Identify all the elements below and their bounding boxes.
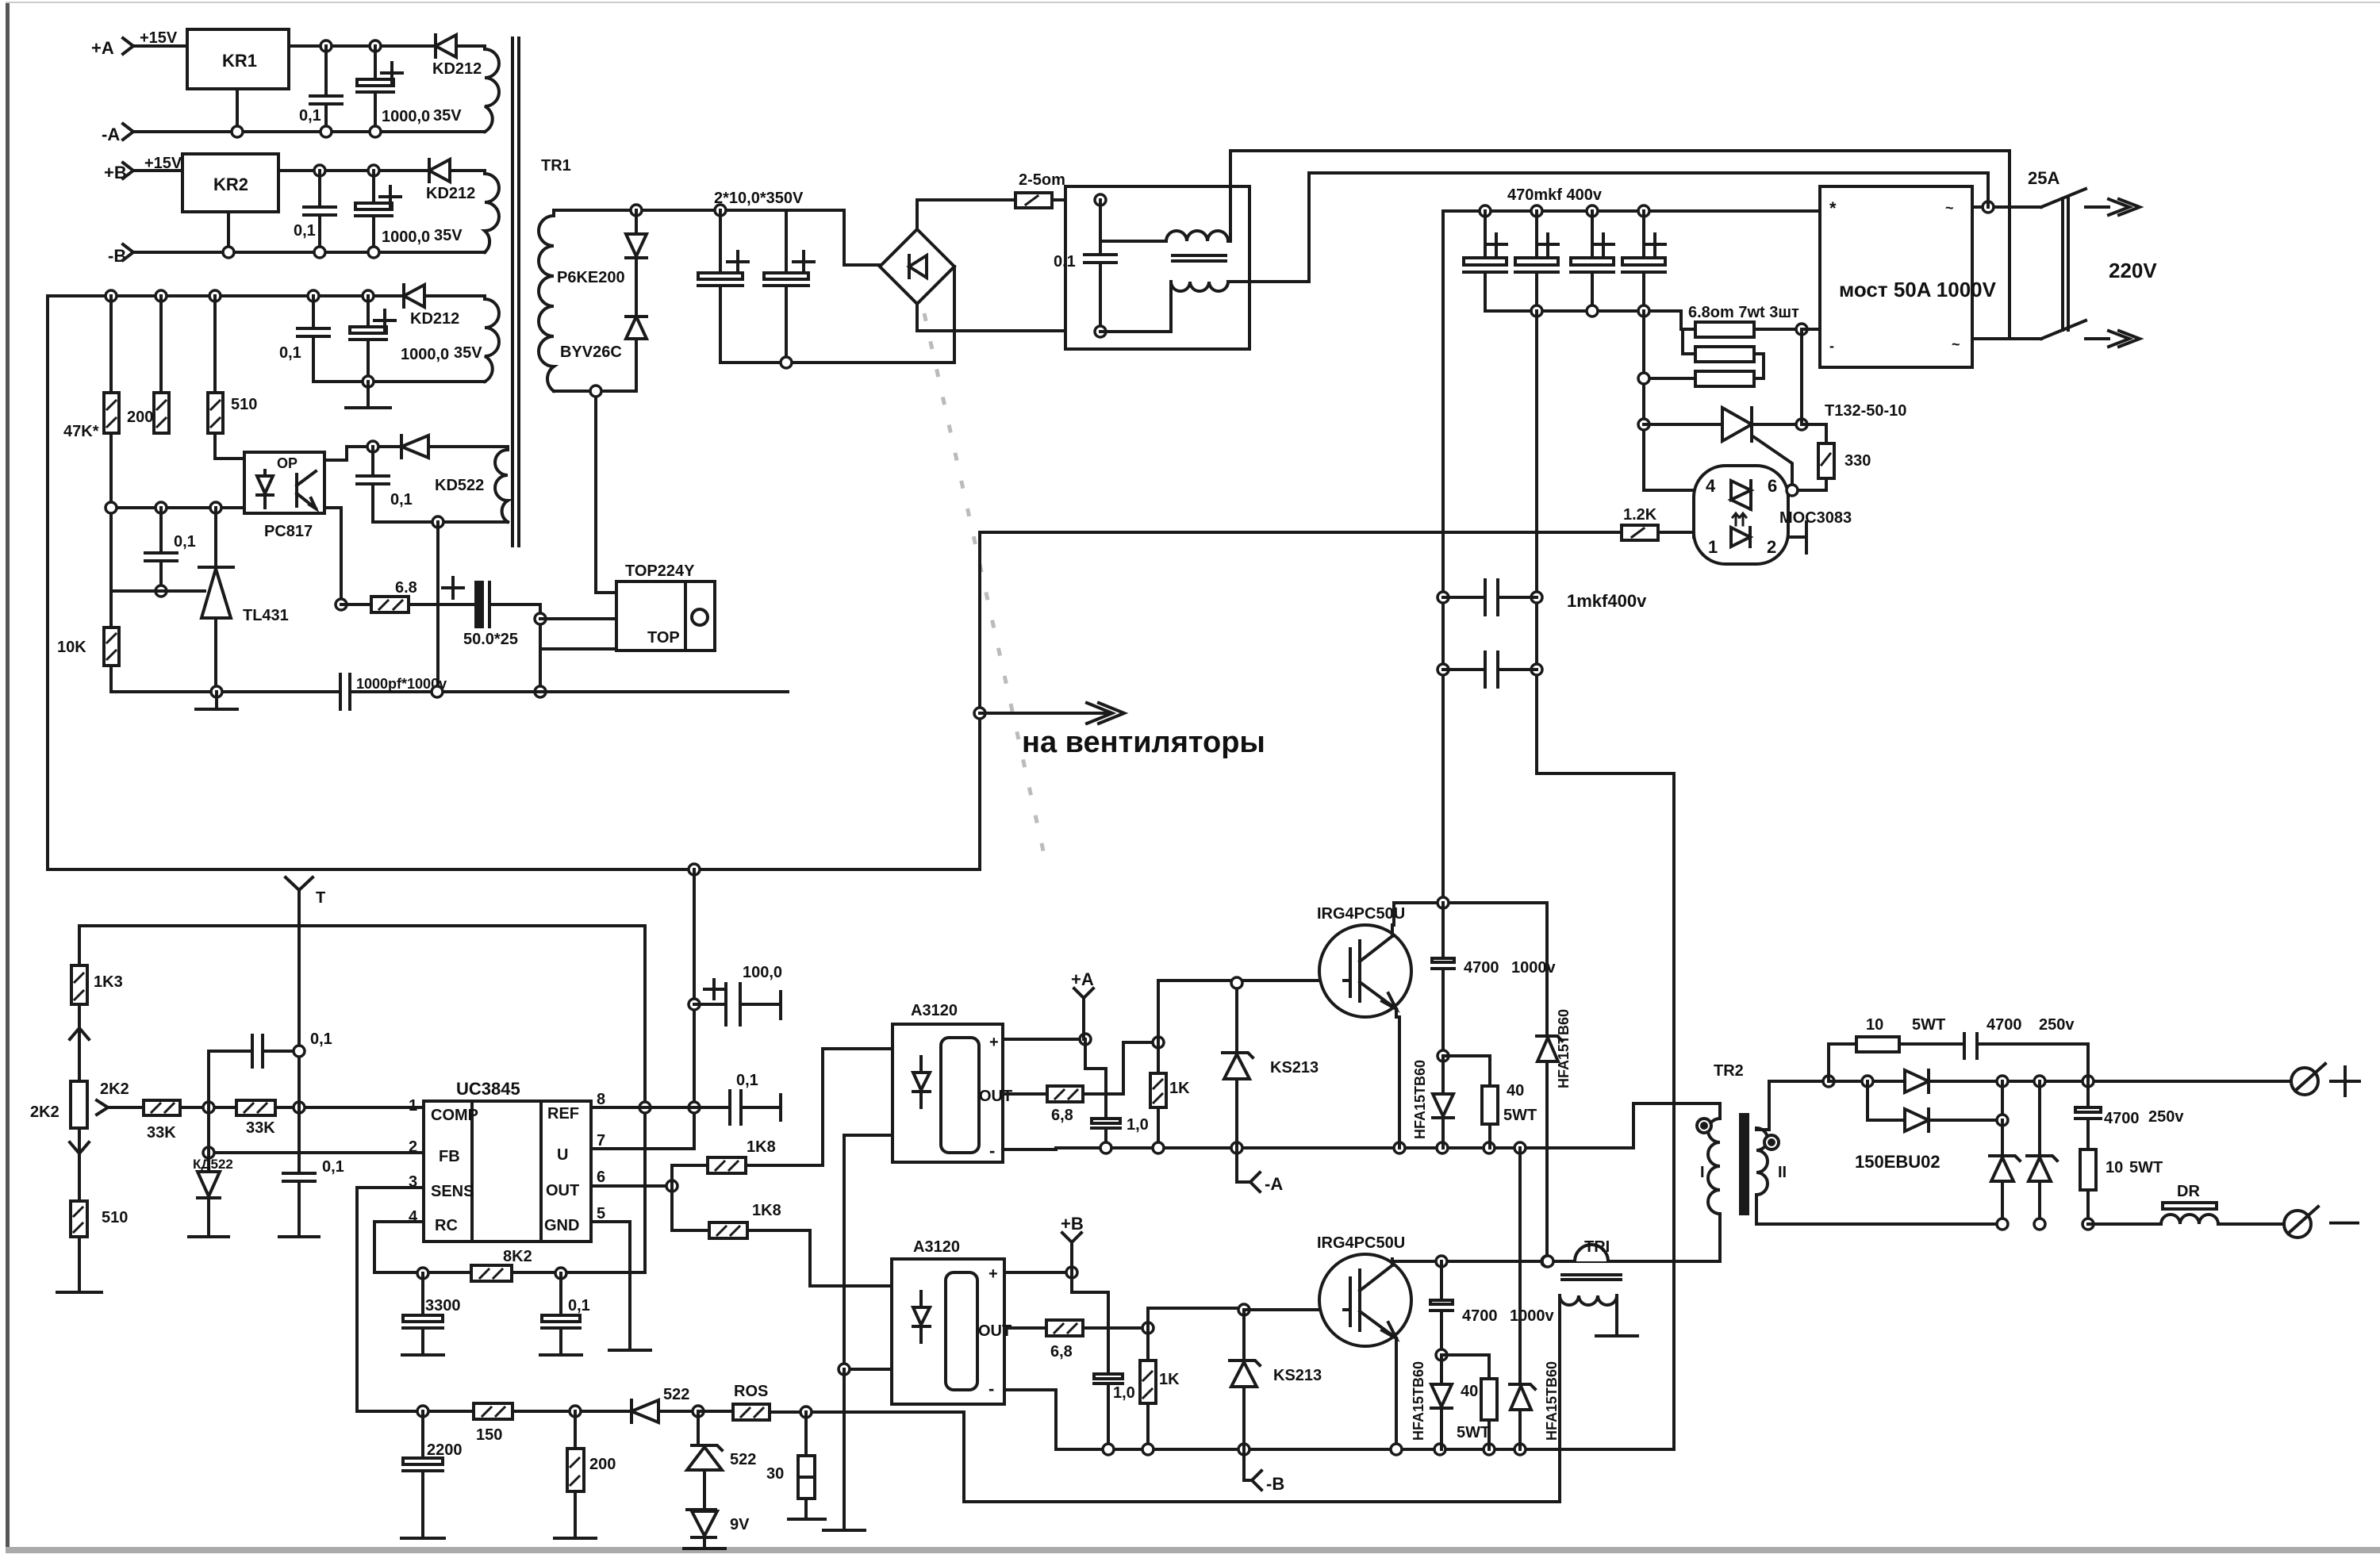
svg-text:HFA15TB60: HFA15TB60 [1556,1009,1572,1088]
svg-text:SENS: SENS [431,1183,474,1200]
wire A3120#2 out pin [1004,1326,1046,1330]
svg-text:КД522: КД522 [193,1157,233,1172]
wire bridge bottom to filter [917,304,1100,331]
diode KD212 (B) [426,159,485,202]
connector +A [91,38,133,58]
IC UC3845 [409,1079,605,1242]
wire KR1 gnd pin [236,89,239,132]
page border top faint [6,2,2380,3]
svg-text:-B: -B [108,246,126,266]
svg-text:0,1: 0,1 [568,1297,590,1314]
winding TR1 aux OP [495,447,508,522]
filter box [1065,186,1249,349]
TR2 phase dot primary [1697,1119,1711,1133]
TRI core bar [1562,1275,1621,1280]
svg-text:25A: 25A [2028,168,2059,188]
wire top rail C [48,294,404,297]
svg-text:1K8: 1K8 [752,1202,781,1219]
connector -A [1237,1148,1283,1194]
connector -A [102,124,133,144]
resistor 2-5om [1015,171,1065,208]
wire GND pin5 [591,1222,630,1350]
svg-text:KD212: KD212 [410,310,459,328]
svg-text:-: - [989,1141,995,1161]
transistor IRG4PC50U #1 [1317,905,1411,1017]
wire 510 to OP pin1 [215,433,244,459]
capacitor 100,0 [694,964,782,1025]
wire filter bottom out [1100,330,1171,333]
diode 150EBU02 #1 [1905,1070,1929,1092]
svg-text:TOP: TOP [647,629,680,647]
svg-text:-A: -A [1265,1174,1283,1194]
svg-text:5WT: 5WT [1503,1107,1537,1124]
zener KS213 #2 [1230,1310,1322,1449]
capacitor 1,0 #1 [1092,1116,1149,1148]
svg-text:510: 510 [231,396,257,413]
T vertical [297,904,301,1173]
resistor 6,8 #1 [1047,1086,1083,1124]
capacitor 470mkf #1 [1464,211,1507,311]
svg-text:KD212: KD212 [432,60,482,78]
svg-text:-: - [988,1379,994,1399]
svg-text:P6KE200: P6KE200 [557,269,625,286]
fans arrow [980,703,1124,723]
resistor 1K #2 [1140,1328,1180,1449]
resistor 6.8om #1 [1681,311,1802,337]
wire to most minus [1802,328,1820,331]
wire REF pin8 [591,1106,730,1109]
wire + line [1829,1080,2292,1083]
capacitor 0,1 T-gnd [279,1158,344,1237]
svg-text:8: 8 [597,1091,605,1108]
resistor 200 [127,296,169,433]
svg-text:5WT: 5WT [1457,1424,1490,1441]
scan crease dashes [924,313,1047,869]
wire SENS row [357,1410,631,1413]
wire bridge right down to caps bottom [953,267,956,363]
svg-text:150EBU02: 150EBU02 [1855,1152,1940,1172]
svg-text:35V: 35V [433,107,462,125]
wire +B to KR2 [133,169,182,172]
svg-text:5WT: 5WT [1912,1016,1945,1034]
svg-text:TL431: TL431 [243,607,289,624]
vertical bus right [1642,311,1645,490]
svg-text:1K8: 1K8 [747,1138,776,1156]
choke winding lower [1171,282,1228,332]
svg-text:6.8: 6.8 [395,579,417,597]
svg-text:A3120: A3120 [913,1238,960,1256]
wire rail C bottom [313,380,485,383]
wire KR1 out [289,44,436,48]
wire bridge top to 2-5om [917,200,1015,229]
resistor 6.8om #2 [1683,329,1764,362]
diode KD212 (C) [404,285,485,328]
svg-text:330: 330 [1844,452,1871,470]
winding TR1 rail B [485,171,499,252]
svg-text:3300: 3300 [425,1297,461,1314]
wire line2 down to switch top [1987,173,1990,207]
wire KR2 out [278,169,429,172]
svg-text:1: 1 [1708,537,1718,557]
diode P6KE200 [626,210,647,317]
connector -B [1244,1449,1284,1494]
svg-text:KR2: KR2 [213,175,248,194]
TR2 secondary bottom wire [1756,1195,2002,1224]
svg-text:I: I [1700,1164,1705,1181]
wire choke upper right up to top line [1228,151,1230,241]
svg-text:FB: FB [439,1148,460,1165]
svg-text:4700: 4700 [1987,1016,2022,1034]
svg-text:4700: 4700 [2104,1110,2140,1127]
optocoupler MOC3083 [1694,466,1852,564]
wire A3120#2 LED return [844,1368,892,1371]
wire to ROS [698,1410,733,1413]
pot arrow bottom [70,1128,89,1201]
wire TOP drain up to TR1 secondary bottom [596,391,616,593]
page border bottom [6,1547,2380,1553]
svg-text:47K*: 47K* [63,423,99,440]
svg-text:0,1: 0,1 [174,533,196,551]
svg-text:0,1: 0,1 [736,1072,758,1089]
wire A3120#1 LED return [844,1135,892,1369]
phototransistor inside PC817 [297,471,316,509]
riser x813 [643,926,647,1272]
wire 2-5om to filter [1052,198,1100,201]
diode HFA15TB60 #3 [1411,1355,1452,1449]
IC мост 50A 1000V [1820,186,1997,367]
svg-text:6: 6 [1768,476,1777,496]
node filter bottom [1095,326,1106,337]
svg-text:RC: RC [435,1217,458,1234]
node filter top [1095,194,1106,205]
svg-text:-: - [1829,338,1834,354]
svg-text:0,1: 0,1 [294,222,316,240]
diode 150EBU02 #2 [1868,1081,2002,1131]
svg-text:PC817: PC817 [264,523,313,540]
ground rail C [346,382,390,408]
resistor 1K #1 [1150,1042,1190,1148]
svg-text:470mkf 400v: 470mkf 400v [1507,186,1603,204]
svg-text:7: 7 [597,1132,605,1149]
svg-text:U: U [557,1146,568,1164]
svg-text:510: 510 [102,1209,128,1226]
capacitor 1mkf400v #1 [1443,580,1647,615]
svg-text:10K: 10K [57,639,86,656]
TR2 secondary top wire [1756,1081,1829,1130]
switch link bar [2063,198,2068,330]
svg-text:40: 40 [1507,1082,1524,1100]
TL431 [199,508,289,692]
svg-text:BYV26C: BYV26C [560,343,622,361]
svg-text:4700: 4700 [1464,959,1499,977]
svg-text:OUT: OUT [978,1322,1011,1340]
switch 25A pole 2 [2041,320,2140,347]
resistor 510 lower [71,1201,128,1292]
svg-text:1K: 1K [1159,1371,1180,1388]
bus +300V vertical [1441,211,1445,903]
wire RC pin4 [374,1222,424,1272]
IGBT2 collector wire [1392,1259,1441,1261]
left bus vertical [46,296,49,869]
svg-text:522: 522 [730,1451,756,1468]
capacitor 470mkf #2 [1515,211,1558,311]
resistor 1K8 #1 [672,1049,892,1186]
wire +A to KR1 [133,44,187,48]
capacitor 1000,0 35V (C) [350,296,482,382]
riser x875 with caps [591,869,694,1149]
snubber 10 5WT top [1829,1016,1964,1081]
capacitor 0,1 (C) [279,296,329,382]
resistor 30 [766,1412,825,1519]
svg-text:30: 30 [766,1465,784,1483]
svg-text:T132-50-10: T132-50-10 [1825,402,1906,420]
wire 8K2 row [423,1271,645,1274]
svg-text:50.0*25: 50.0*25 [463,631,518,648]
svg-text:TR2: TR2 [1714,1062,1744,1080]
capacitor 4700 250v top [1964,1016,2088,1081]
svg-text:UC3845: UC3845 [456,1079,520,1099]
svg-text:9V: 9V [730,1516,750,1533]
bottom control bus wire [113,690,337,693]
node 6.8om to bridge [1796,324,1807,335]
diode КД522 [189,1153,233,1237]
IGBT2 collector line to TRI [1441,1260,1548,1263]
svg-text:6,8: 6,8 [1050,1343,1073,1361]
wire y1167 horizontal [79,924,645,927]
svg-text:GND: GND [544,1217,579,1234]
svg-text:1000,0: 1000,0 [382,108,430,125]
svg-text:2: 2 [1767,537,1776,557]
zener out #2 [2027,1081,2057,1224]
resistor 10 5WT bottom [2080,1149,2163,1224]
capacitor 4700 250v bottom [2075,1081,2184,1149]
resistor 1K3 [71,926,123,1004]
svg-text:5WT: 5WT [2129,1159,2163,1176]
wire A rail to TR2 primary top [1633,1103,1720,1148]
svg-text:TOP224Y: TOP224Y [625,562,695,580]
choke core bars [1173,255,1226,261]
svg-text:IRG4PC50U: IRG4PC50U [1317,905,1405,923]
svg-text:5: 5 [597,1205,605,1222]
node 1mkf top left [1438,592,1449,603]
wire most top-right terminal [1972,205,2041,209]
svg-text:KR1: KR1 [222,51,257,71]
zener 9V [684,1510,750,1549]
TR2 primary winding [1708,1119,1720,1214]
connector +A [1071,969,1094,1039]
bank bottom bus [1485,309,1681,313]
svg-text:522: 522 [663,1386,689,1403]
svg-text:1,0: 1,0 [1113,1384,1135,1402]
connector +B [1061,1214,1084,1272]
capacitor 50.0*25 electrolytic [409,578,540,648]
svg-text:OUT: OUT [979,1088,1012,1105]
wire choke lower right to second line [1228,173,1309,282]
emitter rail A [1003,1148,1633,1149]
svg-text:*: * [1829,198,1837,218]
svg-text:250v: 250v [2039,1016,2075,1034]
wire aux to bottom bus [436,522,440,692]
choke DR [2161,1183,2218,1224]
wire OP pin4 to diode KD522 [324,447,401,460]
wire OP pin2 bottom-left [113,506,244,509]
svg-text:-A: -A [102,125,120,144]
output terminal plus [2291,1064,2359,1096]
resistor 10K [57,591,119,692]
gate wire A to IGBT [1158,981,1344,1042]
svg-text:4700: 4700 [1462,1307,1498,1325]
diode KD212 (A) [432,35,485,78]
wire FB pin2 [209,1151,424,1154]
bank top bus [1443,209,1820,213]
svg-text:0,1: 0,1 [299,107,321,125]
wire line1 down to switch bottom [2008,152,2011,339]
IC KR1 [187,29,289,89]
svg-text:150: 150 [476,1426,502,1444]
ground GND pin5 [609,1349,651,1352]
svg-text:1000v: 1000v [1511,959,1556,977]
svg-text:33K: 33K [147,1124,176,1142]
svg-text:0,1: 0,1 [390,491,413,509]
wire ROS to current sense return [964,1412,1560,1502]
long wire 220V line2 [1309,171,1988,175]
bridge rectifier diamond [880,229,954,304]
IC TOP224Y [616,562,715,651]
TR2 primary bottom to TRI line [1718,1214,1722,1261]
node dots rail A top [321,40,332,52]
wire most bottom-right terminal [1972,337,2041,340]
wire caps top to bridge left [786,210,880,265]
ground TL431 [196,708,237,711]
capacitor 0,1 on REF [730,1072,781,1124]
wire y1096 horizontal [48,868,980,871]
svg-text:+: + [989,1034,999,1051]
svg-text:мост 50A 1000V: мост 50A 1000V [1839,278,1997,301]
resistor 33K #2 [236,1100,424,1137]
wire TR1 secondary bottom [554,390,636,393]
wire -B rail [133,251,485,254]
resistor 150 [474,1403,512,1444]
svg-text:KD522: KD522 [435,477,484,494]
svg-text:HFA15TB60: HFA15TB60 [1412,1060,1428,1139]
capacitor 10,0 350V #2 [764,210,814,363]
diode HFA15TB60 #4 [1510,1148,1560,1449]
resistor 47K* [63,296,119,440]
svg-text:200: 200 [589,1456,616,1473]
svg-text:KS213: KS213 [1273,1367,1322,1384]
switch 25A pole 1 [2041,189,2140,215]
wire to TOP224Y pins [539,604,542,692]
svg-text:REF: REF [547,1105,579,1123]
wire MOC pin1 (1.2K line) [980,531,1622,534]
MOC led symbol [1731,513,1750,547]
svg-text:—: — [2329,1205,2359,1238]
capacitor 0,1 (B) [294,171,336,252]
TRI secondary [1560,1295,1637,1502]
svg-text:1.2K: 1.2K [1623,506,1657,524]
gate node B wiring [1083,1326,1148,1330]
wire KR2 gnd pin [227,212,230,252]
capacitor 0,1 (aux) [357,447,413,522]
winding TR1 rail C [485,296,499,382]
svg-text:2-5om: 2-5om [1019,171,1065,189]
thyristor T132-50-10 [1722,402,1906,490]
svg-text:0,1: 0,1 [322,1158,344,1176]
winding TR1 rail A [485,46,499,132]
resistor ROS [733,1383,964,1420]
svg-text:IRG4PC50U: IRG4PC50U [1317,1234,1405,1252]
node thyristor cathode [1796,419,1807,430]
capacitor 1000,0 35V (B) [355,171,463,252]
TR1 secondary winding [539,210,554,391]
capacitor 0.1 filter [1054,200,1116,332]
svg-text:40: 40 [1461,1383,1478,1400]
svg-text:10: 10 [1866,1016,1883,1034]
bus -300V vertical [1537,311,1674,1449]
IC KR2 [182,154,278,212]
svg-text:1mkf400v: 1mkf400v [1567,591,1647,611]
wire caps bottom to bridge right [720,361,954,364]
svg-text:HFA15TB60: HFA15TB60 [1411,1361,1426,1441]
TR2 secondary winding [1756,1128,1768,1195]
minus rail [1997,1219,2008,1230]
svg-text:T: T [316,889,325,907]
diode 522 [631,1386,698,1422]
emitter rail B [1004,1390,1674,1449]
long wire 220V line1 [1230,149,2010,152]
svg-text:TRI: TRI [1584,1238,1610,1256]
TR2 core [1741,1115,1748,1214]
diode HFA15TB60 #1 [1412,1056,1453,1148]
svg-text:OP: OP [277,455,297,471]
capacitor 1,0 #2 [1094,1374,1135,1449]
connector +B [104,163,133,182]
resistor 510 [208,296,257,433]
diode HFA15TB60 #2 [1537,903,1572,1266]
TR2 phase dot secondary [1764,1135,1779,1149]
wire TR1 secondary top [554,209,786,212]
svg-text:DR: DR [2177,1183,2200,1200]
resistor 6.8om #3 [1644,354,1764,386]
T antenna symbol [286,877,325,907]
capacitor 0,1 under 200 [145,508,196,591]
resistor 8K2 [471,1248,532,1281]
svg-text:A3120: A3120 [911,1002,958,1019]
svg-text:+B: +B [1061,1214,1084,1234]
svg-text:100,0: 100,0 [743,964,782,981]
svg-text:MOC3083: MOC3083 [1779,509,1852,527]
capacitor 1mkf400v #2 [1443,652,1537,687]
svg-text:HFA15TB60: HFA15TB60 [1544,1361,1560,1441]
svg-text:250v: 250v [2148,1108,2184,1126]
resistor 40 5WT #2 [1441,1355,1497,1449]
svg-text:10: 10 [2106,1159,2123,1176]
capacitor 10,0 350V #1 [698,210,748,363]
svg-text:35V: 35V [434,227,463,244]
capacitor 470mkf #3 [1571,211,1614,311]
resistor 200 lower [555,1411,616,1538]
zener KS213 #1 [1223,983,1319,1148]
capacitor 4700 1000v #2 [1430,1261,1554,1355]
diode BYV26C [626,317,647,391]
gate wire B to IGBT2 [1244,1308,1344,1311]
wire fans riser [978,532,981,869]
capacitor 3300 [402,1273,461,1355]
svg-text:1K3: 1K3 [94,973,123,991]
svg-text:8K2: 8K2 [503,1248,532,1265]
svg-text:+A: +A [91,38,114,58]
resistor 330 [1802,424,1871,490]
